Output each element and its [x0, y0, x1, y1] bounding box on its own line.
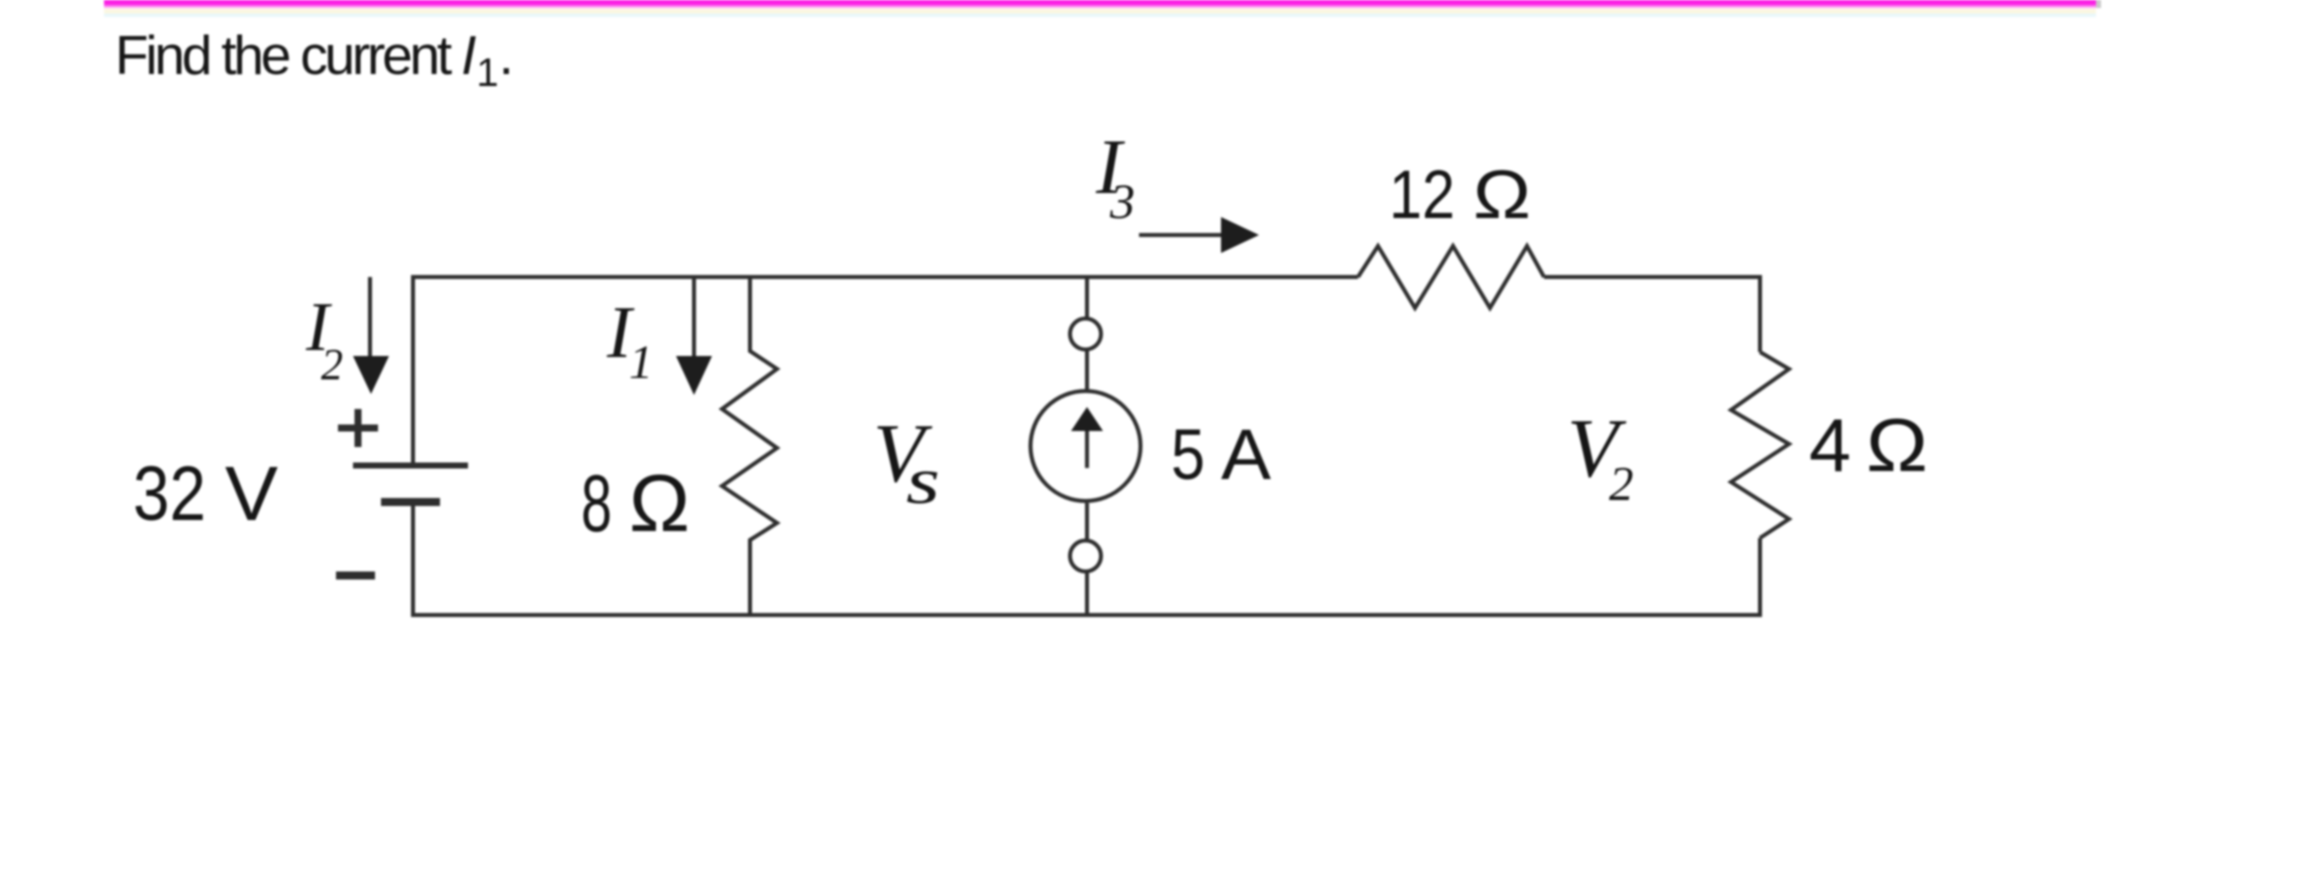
wire: terminal to bottom wire [1085, 572, 1089, 615]
battery 32V long plate [353, 463, 468, 469]
arrowhead I2 [353, 356, 389, 394]
arrowhead current source [1071, 407, 1103, 431]
light blue band [104, 14, 2096, 18]
arrowhead I3 [1221, 217, 1259, 253]
svg-text:1: 1 [629, 336, 653, 389]
svg-text:Find the current I1.: Find the current I1. [115, 24, 514, 95]
svg-text:12: 12 [1389, 156, 1455, 233]
terminal circle bottom [1070, 541, 1101, 572]
wire: top wire left segment [412, 275, 1358, 279]
wire: left vertical lower [411, 504, 415, 617]
battery 32V short plate [381, 498, 440, 506]
battery minus sign [336, 572, 375, 580]
battery plus sign [338, 425, 378, 432]
wire: right vertical lower [1758, 538, 1762, 617]
current source arrow line [1085, 424, 1089, 468]
resistor 4ohm zigzag [1731, 352, 1789, 538]
svg-text:4: 4 [1809, 403, 1851, 487]
wire: top wire right segment [1544, 275, 1762, 279]
wire: right vertical upper [1758, 275, 1762, 352]
terminal circle top [1070, 319, 1101, 350]
arrowhead I1 [676, 356, 712, 395]
wire: left vertical upper (to battery) [411, 275, 415, 463]
arrow I3 line [1139, 233, 1232, 237]
svg-text:2: 2 [1609, 456, 1634, 511]
svg-text:Ω: Ω [629, 459, 690, 549]
resistor 8ohm branch [722, 277, 777, 615]
svg-text:Ω: Ω [1473, 156, 1531, 233]
svg-text:A: A [1221, 416, 1272, 495]
resistor 12ohm zigzag [1358, 246, 1544, 308]
grey tick end of bar [2096, 0, 2101, 8]
magenta divider bar [104, 0, 2096, 4]
wire: source to terminal [1085, 503, 1089, 540]
svg-text:3: 3 [1109, 173, 1135, 229]
svg-text:s: s [906, 444, 940, 518]
cream band [104, 9, 2096, 14]
svg-text:8: 8 [581, 459, 612, 549]
current source 5A circle [1031, 391, 1141, 501]
svg-text:32: 32 [133, 451, 206, 537]
wire: bottom wire [411, 613, 1762, 617]
arrow I1 line [692, 279, 696, 360]
svg-text:V: V [225, 451, 279, 537]
svg-text:Ω: Ω [1866, 403, 1928, 487]
svg-text:5: 5 [1171, 416, 1205, 495]
svg-text:2: 2 [321, 340, 343, 389]
wire: terminal to source [1085, 350, 1089, 390]
arrow I2 line [368, 277, 372, 360]
wire: current source branch top [1085, 277, 1089, 318]
